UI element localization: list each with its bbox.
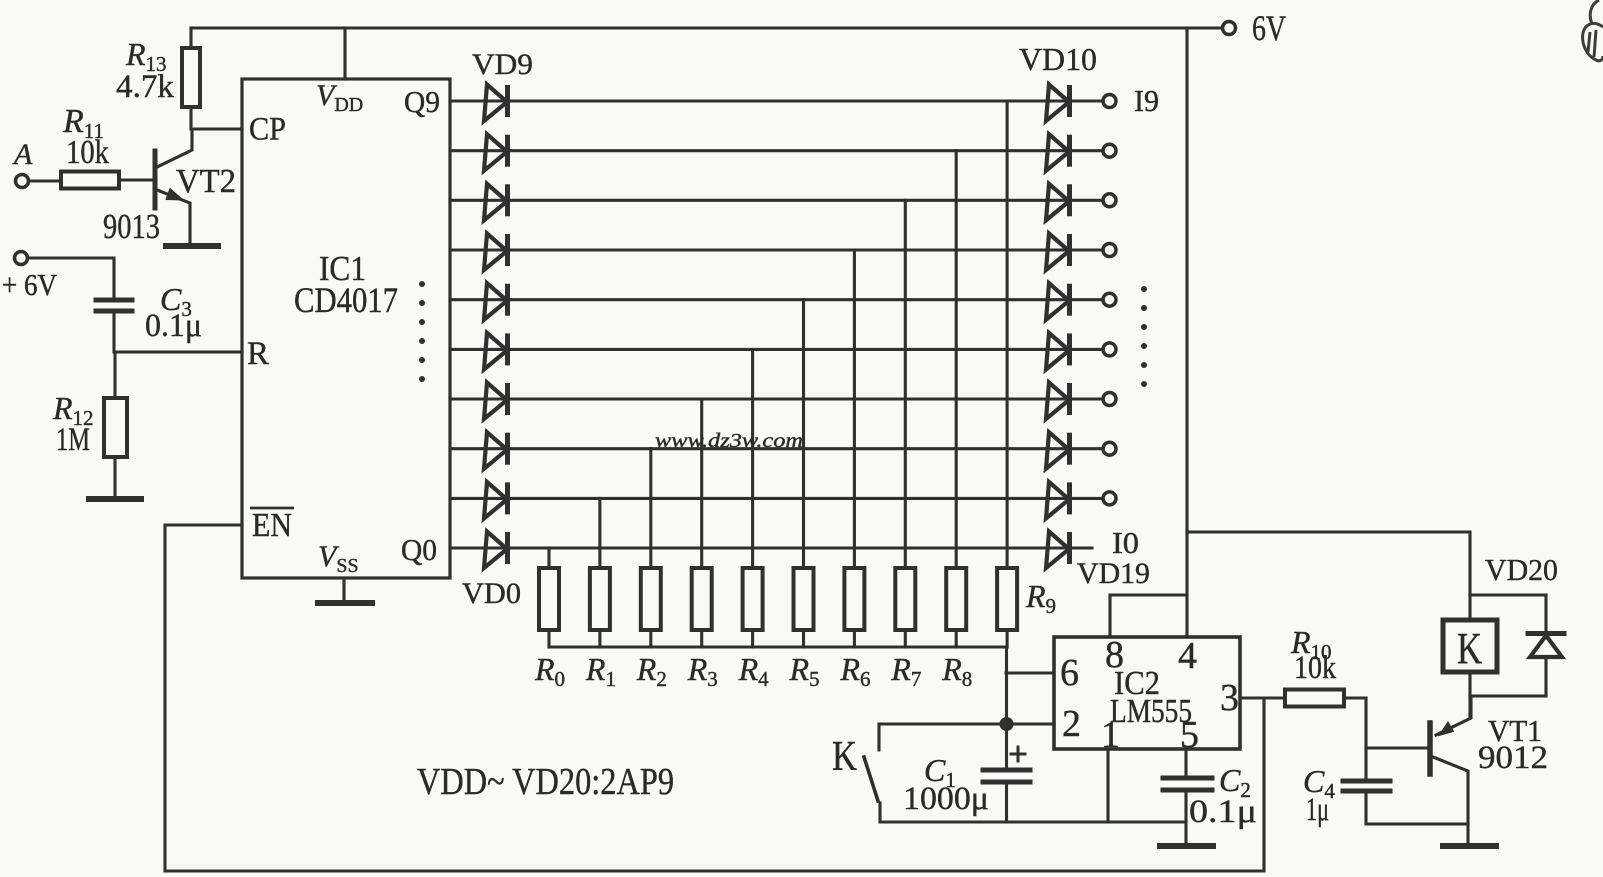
wire row Q7 [450,199,1103,202]
diode VD9 [484,85,508,122]
diode VD19 [1046,532,1070,569]
decorative corner scribble [1583,0,1603,61]
wire 6V rail right [1185,28,1188,637]
capacitor C4 [1343,781,1468,824]
diode VD20 [1528,595,1564,696]
wire CP to IC1 [192,127,242,130]
label EN pin [250,507,294,544]
svg-text:I0: I0 [1112,525,1139,560]
svg-text:Q9: Q9 [404,84,440,119]
wire resistor bus [549,645,1007,648]
resistor R6 [844,568,864,630]
wire +6V to C3 [28,258,114,299]
transistor VT2 [120,129,192,243]
diode VD6 [484,234,508,271]
resistor R5 [794,568,814,630]
svg-text:CD4017: CD4017 [294,280,398,320]
wire pin1 [1106,749,1109,822]
diode VD3 [484,383,508,420]
resistor R8 [946,568,966,630]
svg-text:10k: 10k [1294,650,1336,686]
wire R pin [114,350,242,353]
transistor VT1 [1430,696,1471,844]
op-amp U1 IC1 CD4017 box [242,79,450,578]
wire tap R1 [598,498,601,568]
wire bus to C1 [1005,647,1008,770]
svg-text:VD10: VD10 [1019,41,1097,77]
resistor R4 [743,568,763,630]
wire row Q9 [450,99,1103,102]
ground VT1 [1443,843,1496,849]
svg-text:1000μ: 1000μ [903,781,989,817]
wire relay bottom [1468,672,1471,718]
resistor R11 [29,172,119,189]
wire row Q0 [450,546,1092,549]
capacitor C3 [96,300,132,352]
node terminal I4 [1103,343,1116,356]
svg-text:VD0: VD0 [462,577,521,610]
diode VD12 [1046,184,1070,221]
svg-text:9012: 9012 [1478,740,1548,776]
wire row Q4 [450,348,1103,351]
svg-text:4.7k: 4.7k [116,69,175,105]
node 6V terminal [1223,22,1236,35]
svg-text:VD19: VD19 [1077,557,1150,590]
diode VD17 [1046,432,1070,469]
svg-text:0.1μ: 0.1μ [1189,794,1257,830]
wire switch loop bottom [880,803,1186,822]
wire tap R0 [547,548,550,568]
svg-text:3: 3 [1220,677,1239,719]
node dots column left [419,281,425,382]
op-amp U2 IC2 LM555 box [1054,637,1240,749]
svg-text:CP: CP [249,112,286,148]
wire pin6 [1006,671,1054,674]
node terminal I5 [1103,293,1116,306]
capacitor C1 [983,747,1030,822]
wire rail to relay [1187,532,1470,620]
wire pin2 [1006,722,1054,725]
wire switch loop top [879,724,1006,750]
svg-text:A: A [12,138,33,171]
svg-text:R: R [247,336,269,372]
wire tap R8 [955,151,958,568]
svg-text:1μ: 1μ [1306,792,1329,828]
wire VT1 base [1366,746,1427,749]
wire R10 to base/C4 [1364,698,1367,781]
svg-text:0.1μ: 0.1μ [145,308,202,344]
wire top 6V rail [191,26,1222,29]
wire VDD pin [343,28,346,79]
wire pin3 [1240,696,1285,699]
wire tap R9 [1006,101,1009,568]
diode VD0 [484,532,508,569]
node A terminal [16,175,29,188]
wire row Q2 [450,447,1103,450]
diode VD2 [484,432,508,469]
diode VD11 [1046,134,1070,171]
node terminal I9 [1103,95,1116,108]
svg-text:10k: 10k [66,134,109,171]
node terminal I8 [1103,144,1116,157]
diode VD4 [484,333,508,370]
node junction dot [1001,719,1012,730]
diode VD16 [1046,383,1070,420]
switch K blade [864,757,878,801]
svg-text:VDD~ VD20:2AP9: VDD~ VD20:2AP9 [417,761,674,803]
ground VT2 emitter [166,243,218,249]
wire EN feedback loop [165,525,1264,871]
wire tap R5 [802,300,805,568]
resistor R0 [539,568,559,630]
svg-text:LM555: LM555 [1110,693,1192,730]
diode VD10 [1046,85,1070,122]
wire tap R2 [649,449,652,568]
diode VD14 [1046,283,1070,320]
svg-text:Q0: Q0 [401,532,437,567]
svg-text:4: 4 [1178,635,1197,677]
diode VD1 [484,482,508,519]
wire tap R7 [904,200,907,568]
diode VD7 [484,184,508,221]
wire row Q5 [450,298,1103,301]
node terminal I2 [1103,442,1116,455]
resistor R1 [590,568,610,630]
wire row Q1 [450,497,1103,500]
wire tap R4 [751,349,754,568]
svg-text:EN: EN [252,507,292,544]
ground R12 [89,496,141,502]
resistor R10 [1285,690,1366,707]
node +6V terminal [15,252,28,265]
node dots column right [1141,286,1147,387]
svg-text:VD20: VD20 [1485,552,1558,587]
resistor R9 [997,568,1017,630]
resistor R2 [641,568,661,630]
node terminal I7 [1103,194,1116,207]
resistor R12 [104,352,127,497]
resistor R3 [692,568,712,630]
wire pin8 [1110,595,1187,637]
ground C2 [1160,843,1213,849]
diode VD13 [1046,234,1070,271]
svg-text:www.dz3w.com: www.dz3w.com [655,430,803,452]
svg-text:+ 6V: + 6V [2,267,58,302]
svg-text:K: K [1457,624,1482,673]
diode VD5 [484,283,508,320]
svg-text:2: 2 [1062,703,1081,745]
svg-text:I9: I9 [1134,83,1159,118]
capacitor C2 [1163,749,1212,845]
wire relay diode top [1470,593,1546,596]
svg-text:6: 6 [1060,652,1079,694]
svg-text:VT2: VT2 [176,163,236,200]
node terminal I6 [1103,244,1116,257]
wire row Q8 [450,149,1103,152]
svg-text:6V: 6V [1252,8,1286,48]
resistor R7 [895,568,915,630]
svg-text:K: K [832,734,857,780]
wire tap R3 [700,399,703,568]
ground VSS [318,578,372,603]
resistor R13 [182,28,200,129]
node terminal I3 [1103,393,1116,406]
wire tap R6 [853,250,856,568]
diode VD8 [484,134,508,171]
svg-text:1M: 1M [56,422,90,458]
diode VD15 [1046,333,1070,370]
relay K box [1443,620,1497,672]
node terminal I1 [1103,492,1116,505]
diode VD18 [1046,482,1070,519]
svg-text:VD9: VD9 [472,48,533,81]
wire row Q3 [450,397,1103,400]
svg-text:9013: 9013 [103,207,160,246]
wire row Q6 [450,248,1103,251]
